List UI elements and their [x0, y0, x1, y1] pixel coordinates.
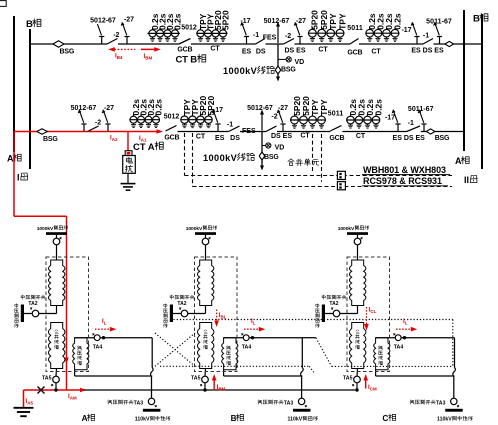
- svg-text:TA2: TA2: [177, 301, 186, 307]
- svg-text:TA4: TA4: [394, 344, 404, 350]
- svg-text:WBH801 & WXH803: WBH801 & WXH803: [363, 165, 446, 175]
- svg-text:DS: DS: [256, 49, 266, 56]
- svg-text:B: B: [26, 19, 33, 30]
- svg-text:B: B: [473, 14, 480, 25]
- svg-text:ES: ES: [215, 135, 225, 142]
- svg-text:-2: -2: [285, 33, 291, 40]
- svg-text:TA5: TA5: [343, 375, 353, 381]
- svg-text:TA5: TA5: [42, 375, 52, 381]
- svg-text:TA2: TA2: [28, 301, 37, 307]
- svg-text:II: II: [464, 175, 469, 185]
- svg-text:BSG: BSG: [60, 49, 75, 56]
- svg-text:5012: 5012: [164, 114, 180, 121]
- svg-text:5012-67: 5012-67: [90, 18, 116, 25]
- svg-text:C: C: [382, 414, 388, 423]
- svg-text:-27: -27: [278, 105, 288, 112]
- svg-text:110kV: 110kV: [437, 417, 452, 423]
- svg-text:TA4: TA4: [242, 344, 252, 350]
- svg-text:B: B: [231, 414, 237, 423]
- svg-text:-27: -27: [296, 18, 306, 25]
- svg-text:5012-67: 5012-67: [247, 105, 273, 112]
- svg-text:-27: -27: [124, 17, 134, 24]
- svg-text:-17: -17: [240, 18, 250, 25]
- svg-text:-1: -1: [227, 122, 233, 129]
- svg-text:ES DS ES: ES DS ES: [411, 48, 444, 55]
- svg-text:RCS978 & RCS931: RCS978 & RCS931: [363, 176, 442, 186]
- svg-text:FES: FES: [263, 35, 277, 42]
- svg-text:CT: CT: [210, 46, 220, 53]
- svg-text:1000kV: 1000kV: [37, 226, 54, 232]
- svg-text:1000kV: 1000kV: [203, 153, 238, 163]
- svg-text:1000kV: 1000kV: [338, 226, 355, 232]
- svg-text:BSG: BSG: [435, 135, 450, 142]
- svg-text:BSG: BSG: [43, 136, 58, 143]
- svg-text:I: I: [17, 173, 20, 183]
- svg-text:GCB: GCB: [164, 135, 179, 142]
- svg-text:-2: -2: [113, 32, 119, 39]
- svg-text:VD: VD: [275, 145, 285, 152]
- svg-text:TA2: TA2: [329, 301, 338, 307]
- svg-text:-17: -17: [213, 107, 223, 114]
- svg-text:BSG: BSG: [264, 154, 279, 161]
- svg-text:-17: -17: [385, 115, 395, 122]
- svg-text:-1: -1: [408, 120, 414, 127]
- svg-text:5011-67: 5011-67: [408, 106, 434, 113]
- svg-text:DS: DS: [230, 135, 240, 142]
- svg-text:DS ES: DS ES: [285, 47, 306, 54]
- svg-text:A: A: [7, 154, 14, 164]
- svg-text:CT: CT: [371, 49, 381, 56]
- svg-text:-1: -1: [423, 33, 429, 40]
- svg-text:110kV: 110kV: [135, 417, 150, 423]
- svg-text:5011-67: 5011-67: [426, 19, 452, 26]
- svg-text:TPY: TPY: [337, 13, 347, 30]
- svg-text:VD: VD: [295, 59, 305, 66]
- svg-text:FES: FES: [242, 128, 256, 135]
- svg-text:ES: ES: [242, 49, 252, 56]
- svg-text:CT: CT: [318, 47, 328, 54]
- svg-text:-17: -17: [401, 27, 411, 34]
- svg-text:5012-67: 5012-67: [264, 18, 290, 25]
- svg-text:CT A: CT A: [133, 142, 155, 153]
- svg-text:TA3: TA3: [134, 400, 144, 406]
- svg-text:0.2s: 0.2s: [373, 99, 383, 116]
- svg-text:A: A: [82, 414, 88, 423]
- svg-text:-2: -2: [95, 119, 101, 126]
- svg-text:GCB: GCB: [347, 50, 362, 57]
- svg-text:ES DS ES: ES DS ES: [393, 135, 426, 142]
- svg-text:0.2s: 0.2s: [153, 99, 163, 116]
- svg-text:GCB: GCB: [329, 135, 344, 142]
- svg-text:TA3: TA3: [284, 400, 294, 406]
- svg-text:1000kV: 1000kV: [186, 226, 203, 232]
- svg-text:-1: -1: [253, 32, 259, 39]
- svg-text:TA4: TA4: [93, 344, 103, 350]
- svg-text:A: A: [455, 156, 462, 166]
- svg-text:GCB: GCB: [177, 47, 192, 54]
- svg-text:110kV: 110kV: [287, 417, 302, 423]
- svg-text:CT: CT: [356, 133, 366, 140]
- svg-text:-27: -27: [104, 105, 114, 112]
- svg-text:DS ES: DS ES: [271, 133, 292, 140]
- svg-text:CT B: CT B: [176, 55, 198, 66]
- svg-text:CT: CT: [300, 133, 310, 140]
- svg-text:-2: -2: [271, 113, 277, 120]
- svg-text:TA5: TA5: [191, 375, 201, 381]
- svg-text:TA3: TA3: [436, 400, 446, 406]
- svg-text:1000kV: 1000kV: [223, 66, 258, 76]
- svg-text:5012-67: 5012-67: [71, 105, 97, 112]
- svg-text:CT: CT: [196, 133, 206, 140]
- svg-text:5011: 5011: [347, 25, 363, 32]
- svg-text:BSG: BSG: [281, 66, 296, 73]
- svg-text:5P20: 5P20: [220, 10, 230, 30]
- svg-text:5012: 5012: [181, 25, 197, 32]
- svg-text:5011: 5011: [328, 111, 344, 118]
